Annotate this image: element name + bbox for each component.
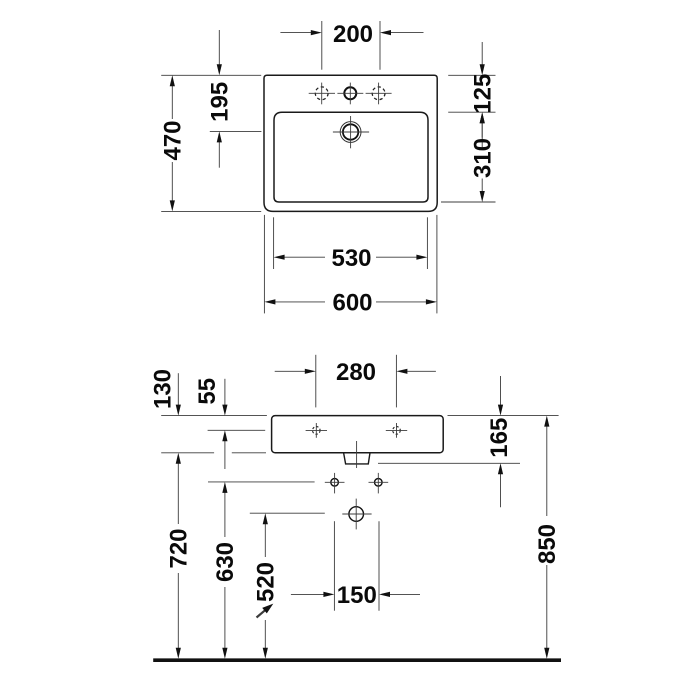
- svg-text:520: 520: [253, 562, 280, 602]
- svg-text:165: 165: [486, 418, 513, 458]
- svg-text:850: 850: [534, 524, 561, 564]
- svg-text:200: 200: [333, 21, 373, 48]
- svg-text:720: 720: [166, 528, 193, 568]
- svg-text:470: 470: [160, 120, 187, 160]
- svg-text:310: 310: [469, 138, 496, 178]
- svg-text:130: 130: [149, 369, 176, 409]
- svg-text:150: 150: [337, 582, 377, 609]
- svg-text:195: 195: [207, 82, 234, 122]
- svg-text:600: 600: [332, 290, 372, 317]
- svg-text:630: 630: [212, 542, 239, 582]
- svg-text:55: 55: [194, 378, 221, 405]
- svg-text:125: 125: [469, 74, 496, 114]
- svg-text:280: 280: [336, 359, 376, 386]
- svg-text:530: 530: [331, 245, 371, 272]
